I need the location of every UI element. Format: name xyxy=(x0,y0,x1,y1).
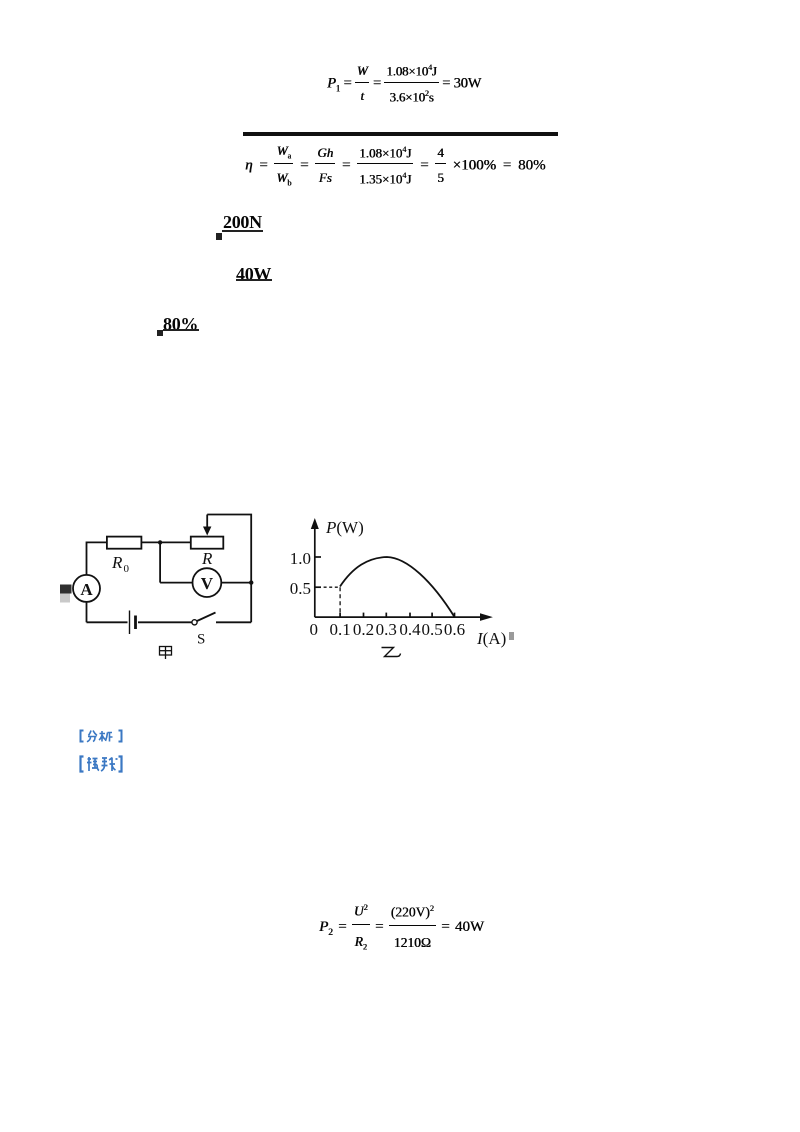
svg-text:0.3: 0.3 xyxy=(376,620,397,639)
battery long plate xyxy=(129,611,131,635)
svg-text:V: V xyxy=(201,574,214,593)
svg-text:R: R xyxy=(201,549,213,568)
svg-text:1.0: 1.0 xyxy=(290,549,311,568)
power curve xyxy=(340,557,455,617)
svg-text:0: 0 xyxy=(124,563,130,575)
y ticks xyxy=(315,556,321,558)
switch lever xyxy=(197,613,216,622)
blue label 分析 glyphs xyxy=(71,728,128,744)
wire after switch xyxy=(216,621,251,623)
svg-text:I(A): I(A) xyxy=(476,629,506,648)
bottom formula P = U^2/R = (220V)^2 / 1210ohm = 40W xyxy=(319,903,499,953)
battery short plate xyxy=(134,616,137,630)
svg-text:0.6: 0.6 xyxy=(444,620,465,639)
top formula white frame xyxy=(319,57,473,105)
svg-text:0.2: 0.2 xyxy=(353,620,374,639)
divider rule xyxy=(243,132,558,136)
figure: circuit 甲 and graph 乙 xyxy=(60,505,520,670)
svg-text:R: R xyxy=(111,553,123,572)
wire junction to voltmeter xyxy=(160,582,192,584)
rheostat arrowhead xyxy=(203,527,211,536)
voltmeter circle xyxy=(193,568,222,597)
y-axis xyxy=(314,526,316,617)
wire voltmeter to right wire xyxy=(221,582,251,584)
svg-text:P(W): P(W) xyxy=(325,518,364,537)
blue label 分析 box xyxy=(71,728,128,744)
junction dot left xyxy=(158,540,162,544)
top formula P1 = W/t = fraction = 30W xyxy=(327,63,483,105)
dashed horizontal 0.5 xyxy=(318,586,340,588)
wire top-left to R0 xyxy=(87,542,107,575)
blue label 详解 box xyxy=(71,752,128,776)
bottom wire battery to switch xyxy=(138,621,195,623)
svg-text:0.1: 0.1 xyxy=(329,620,350,639)
wire ammeter down to bottom xyxy=(86,602,88,622)
wire R0 to junction to R xyxy=(141,541,190,543)
blue label 详解 glyphs xyxy=(71,752,128,776)
svg-text:0.5: 0.5 xyxy=(421,620,442,639)
top wire xyxy=(207,515,251,623)
x axis arrowhead xyxy=(480,613,493,621)
figure white background right xyxy=(292,508,515,666)
y axis arrowhead xyxy=(311,518,319,529)
dashed vertical 0.1 xyxy=(339,587,341,617)
answer 80% xyxy=(159,311,201,319)
svg-text:0.4: 0.4 xyxy=(399,620,421,639)
svg-text:S: S xyxy=(197,632,205,648)
x ticks xyxy=(339,613,341,618)
junction dot right xyxy=(249,580,253,584)
graph axes xyxy=(315,526,484,617)
label 甲 (drawn) xyxy=(160,647,172,660)
svg-text:A: A xyxy=(80,580,93,599)
rheostat arrow vertical xyxy=(206,515,208,528)
bottom wire left segment to battery xyxy=(87,621,128,623)
switch pivot circle xyxy=(192,620,197,625)
label 乙 (drawn) xyxy=(382,648,401,657)
efficiency formula line xyxy=(245,144,565,190)
small gray square right of I(A) xyxy=(509,632,514,640)
rheostat R box xyxy=(191,537,224,549)
answer 40W xyxy=(232,256,281,265)
x-axis xyxy=(315,616,484,618)
gray marks at left edge xyxy=(60,585,72,594)
ammeter circle xyxy=(73,575,100,602)
junction vertical down xyxy=(159,542,161,582)
answer 200N xyxy=(222,207,264,214)
resistor R0 xyxy=(107,537,141,549)
white bar under rule xyxy=(238,136,561,144)
bottom formula white bar xyxy=(319,897,481,904)
svg-text:0: 0 xyxy=(310,620,319,639)
svg-text:0.5: 0.5 xyxy=(290,579,311,598)
figure white background left xyxy=(64,514,292,663)
